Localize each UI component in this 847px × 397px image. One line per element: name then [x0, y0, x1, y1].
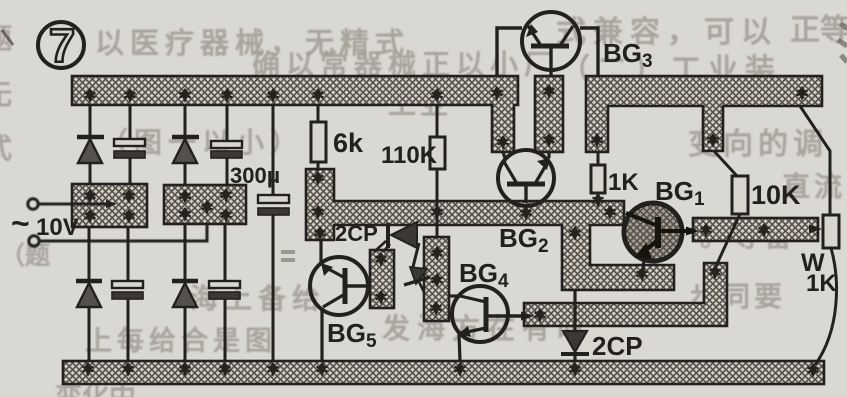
resistor 6k — [311, 122, 326, 162]
winding box T1b — [164, 185, 246, 224]
svg-text:1K: 1K — [608, 169, 639, 196]
BG3 emitter wire to bus A — [497, 28, 522, 76]
svg-text:1K: 1K — [806, 270, 837, 297]
block (BG5 base) — [370, 250, 394, 308]
potentiometer wiper arrow — [809, 225, 822, 234]
junction bus C at 10K bar — [708, 133, 719, 148]
potentiometer W wires — [800, 106, 836, 365]
resistor 110K — [430, 137, 445, 169]
top bus segment C with drop bars — [586, 76, 822, 152]
BG4 collector wire to block — [449, 294, 460, 297]
capacitor C3 (lower) — [112, 281, 143, 299]
diode 2CP (upper, at mid bus) — [374, 222, 417, 252]
BG2 emitter wire to bar B — [547, 152, 550, 158]
junction block BG4 top — [432, 246, 443, 261]
BG3 collector wire to bus C — [580, 28, 598, 76]
diode D3 (lower) — [76, 281, 102, 307]
wire lower terminal to box T1b bottom — [40, 224, 207, 241]
junction top bus at D2 — [180, 88, 191, 103]
junction top bus at 110K — [432, 88, 443, 103]
junction L-bar at BG1 emitter — [637, 267, 648, 282]
AC input terminal upper — [28, 199, 38, 209]
winding box T1a — [72, 184, 147, 227]
transistor BG2 — [498, 150, 554, 206]
capacitor C4 (lower) — [209, 281, 240, 299]
junction bus C right end — [797, 86, 808, 101]
figure number 7 — [38, 19, 84, 72]
junction box T1a bottom left — [85, 209, 96, 224]
junction block BG4 mid — [432, 273, 443, 288]
junction mid bus riser top — [313, 171, 324, 186]
junction mid bus stub bottom — [315, 226, 326, 241]
junction BG4 bar left — [535, 308, 546, 323]
bleed mark left of mid bus — [281, 252, 295, 260]
junction box T1b bottom right — [221, 208, 232, 223]
BG5 emitter wire to mid bus stub — [319, 240, 322, 262]
svg-text:（题: （题 — [0, 241, 50, 270]
junction top bus at BG3 emitter — [492, 86, 503, 101]
junction bottom bus right end — [808, 363, 819, 378]
svg-text:~: ~ — [11, 205, 30, 241]
resistor 1K leads — [597, 152, 600, 203]
junction box T1b bottom left — [180, 207, 191, 222]
capacitor C2 — [211, 141, 242, 158]
diode D2 — [172, 137, 199, 163]
junction block BG5 top — [376, 252, 387, 267]
junction bottom bus at BG4 — [455, 362, 466, 377]
svg-text:110K: 110K — [381, 142, 438, 169]
diode D1 — [77, 137, 104, 163]
junction bottom bus at 2CP — [570, 362, 581, 377]
junction block BG5 bottom — [376, 290, 387, 305]
svg-text:10V: 10V — [36, 214, 79, 241]
wire D2 column — [184, 105, 187, 361]
junction bar A bottom — [498, 135, 509, 150]
junction top bus at 6k — [313, 88, 324, 103]
wire D1 column — [89, 105, 90, 361]
diode D4 (lower) — [172, 281, 198, 307]
capacitor C1 — [114, 139, 145, 158]
AC input terminal lower — [29, 236, 39, 246]
arrow into box T1a — [106, 200, 117, 208]
label ~10V — [11, 205, 79, 241]
svg-text:300μ: 300μ — [230, 163, 280, 188]
resistor 10K leads — [714, 151, 740, 266]
svg-text:7: 7 — [49, 19, 75, 72]
junction right bus left — [701, 223, 712, 238]
resistor 1K — [591, 165, 605, 193]
svg-text:式兼容，可以: 式兼容，可以 — [556, 16, 778, 49]
svg-text:上每给合是图: 上每给合是图 — [85, 325, 277, 356]
junction mid bus at riser — [313, 205, 324, 220]
svg-text:无: 无 — [0, 79, 12, 110]
junction bus C drop — [592, 133, 603, 148]
BG4 base arrow into output bar — [521, 312, 534, 321]
junction box T1a top right — [124, 189, 135, 204]
capacitor C1 column wire — [128, 105, 130, 361]
wire upper terminal to box T1a — [39, 203, 110, 206]
capacitor C2 column wire — [225, 105, 227, 361]
junction mid bus at BG2 — [521, 206, 532, 221]
capacitor 300u — [258, 195, 289, 215]
junction mid bus at 110K — [432, 205, 443, 220]
bottom bus — [63, 361, 824, 384]
resistor 10K — [732, 176, 748, 214]
junction block BG4 bottom — [431, 301, 442, 316]
svg-text:2CP: 2CP — [335, 221, 378, 246]
diode 2CP (slanted, to BG4 block) — [404, 243, 430, 292]
junction mid bus at 1K — [605, 205, 616, 220]
top bus segment A with drop bar — [72, 76, 518, 152]
junction top bus at C1 — [125, 88, 136, 103]
right bus (BG1 output) — [693, 218, 818, 241]
junction bottom bus at D4 — [180, 362, 191, 377]
mid bus (BG2 emitter rail) with riser to 6k and L-bar under BG1 — [306, 169, 674, 290]
label W 1K — [801, 249, 837, 297]
junction top bus at 300u — [268, 88, 279, 103]
BG2 collector wire to bar A — [503, 152, 505, 158]
junction bottom bus at BG5 — [317, 362, 328, 377]
junction top bus at D1 — [85, 88, 96, 103]
BG1 collector arrow into right bus — [686, 227, 699, 236]
junction right bus right — [759, 223, 770, 238]
transistor BG5 — [310, 240, 368, 361]
junction box T1b top left — [180, 189, 191, 204]
diode 2CP (lower, to bottom bus) — [561, 290, 648, 362]
capacitor 300u column wire — [272, 105, 275, 361]
junction bar B bottom — [544, 133, 555, 148]
junction below 1K — [593, 193, 604, 208]
junction box T1a bottom right — [124, 209, 135, 224]
potentiometer W body — [823, 215, 839, 248]
svg-text:式: 式 — [0, 133, 12, 164]
svg-text:6k: 6k — [333, 128, 364, 158]
junction bottom bus at C3 — [123, 362, 134, 377]
junction box T1b top right — [221, 188, 232, 203]
BG4 emitter wire to bottom bus — [459, 334, 460, 361]
transistor BG3 — [497, 12, 598, 76]
scan artifact top-left slash — [2, 30, 13, 45]
svg-text:10K: 10K — [751, 180, 801, 210]
junction riser at 10K — [710, 265, 721, 280]
BG5 collector wire to bottom bus — [320, 308, 323, 361]
transistor BG4 — [449, 286, 534, 361]
junction mid bus at L-bar — [570, 226, 581, 241]
junction bottom bus at C4 — [220, 362, 231, 377]
junction bar B top — [544, 84, 555, 99]
scan artifact right edge blob — [838, 24, 847, 62]
block (BG4 collector) — [424, 237, 449, 321]
resistor 110K leads — [436, 105, 439, 237]
bus bar B (BG3 base drop) — [535, 76, 563, 152]
BG4 output bar with riser — [524, 263, 727, 326]
transistor BG1 — [624, 203, 699, 272]
junction bottom bus at 300u — [268, 362, 279, 377]
svg-text:题: 题 — [0, 23, 12, 54]
junction box T1b center — [202, 200, 213, 215]
BG1 emitter wire to L-bar — [643, 258, 644, 272]
resistor 6k leads — [317, 105, 320, 171]
junction top bus at C2 — [222, 88, 233, 103]
svg-text:2CP: 2CP — [592, 331, 643, 361]
junction box T1a top left — [85, 189, 96, 204]
junction bottom bus at D3 — [83, 362, 94, 377]
